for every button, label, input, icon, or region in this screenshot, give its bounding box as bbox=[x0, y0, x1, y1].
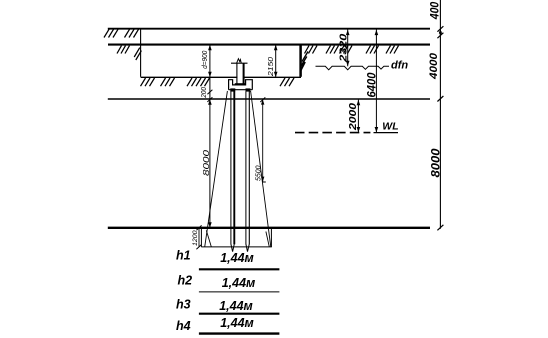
pile right outer line bbox=[245, 92, 247, 245]
svg-text:h1: h1 bbox=[176, 249, 191, 263]
svg-text:1,44м: 1,44м bbox=[219, 299, 253, 313]
dim 2000-right line bbox=[357, 100, 359, 133]
small arrow blob at right dim tick y35.5 bbox=[439, 32, 442, 36]
battered pile left tip line bbox=[206, 230, 211, 246]
soil table line under h4 (thick) bbox=[199, 332, 280, 334]
right dim tick at L4 bbox=[437, 225, 443, 231]
hatch group under pit bottom c bbox=[187, 78, 210, 86]
svg-text:h4: h4 bbox=[176, 319, 191, 333]
svg-text:4000: 4000 bbox=[428, 52, 440, 80]
dim 5500 bottom foot bbox=[263, 181, 266, 183]
hatch group under pit bottom a bbox=[141, 78, 155, 86]
hatch group under L2 right b bbox=[326, 46, 339, 54]
dim 2320 line bbox=[347, 30, 349, 67]
svg-text:1,44м: 1,44м bbox=[220, 316, 254, 330]
pile left inner line (thick) bbox=[233, 92, 235, 245]
svg-text:1200: 1200 bbox=[192, 230, 199, 246]
excavation pit right wall (thick) bbox=[299, 45, 302, 77]
hatch group under L1 left a bbox=[104, 29, 118, 37]
dim 1200 line bbox=[198, 228, 200, 247]
hatch group under L2 right e bbox=[386, 46, 399, 54]
svg-text:6400: 6400 bbox=[367, 72, 379, 98]
hatch group under L2 right c bbox=[340, 46, 353, 54]
dim 1200 tick top bbox=[196, 225, 201, 230]
svg-text:dfn: dfn bbox=[391, 60, 408, 72]
soil table line under h1 (thick) bbox=[199, 268, 280, 270]
excavation pit left wall bbox=[140, 29, 142, 77]
pile right inner line bbox=[248, 92, 250, 245]
arrow down at WL on 2000-right dim bbox=[357, 127, 361, 132]
arrow up at L3 on 2000-right dim bbox=[357, 100, 361, 105]
arrow up at L1 on 6400 dim bbox=[375, 30, 379, 35]
svg-text:WL: WL bbox=[382, 121, 398, 133]
svg-text:h3: h3 bbox=[176, 298, 191, 312]
arrow up at L3 on 5500 dim bbox=[261, 99, 264, 104]
hatch group under L2 right a bbox=[305, 46, 318, 54]
footing left edge bbox=[200, 229, 202, 247]
footing bottom line bbox=[201, 246, 271, 248]
pile right pointed tip bbox=[246, 244, 249, 252]
right dim tick at L3 bbox=[437, 96, 443, 102]
dim 1200 tick bottom bbox=[196, 245, 201, 250]
soil layer boundary L3 bbox=[108, 98, 430, 100]
arrow down at pit bottom on 2000-left dim bbox=[274, 72, 278, 77]
arrow up at L2 on 2000-left dim bbox=[274, 45, 278, 50]
svg-text:8000: 8000 bbox=[430, 148, 442, 178]
tick 200 lower on left extension line bbox=[207, 97, 212, 102]
svg-text:200: 200 bbox=[201, 87, 208, 98]
tick at L3 on 5500 dim bbox=[260, 97, 265, 102]
svg-text:d=900: d=900 bbox=[200, 50, 209, 69]
water level solid segment under WL bbox=[374, 132, 399, 134]
svg-text:h2: h2 bbox=[178, 274, 193, 288]
bearing pad right (filled) bbox=[246, 88, 251, 91]
hatch group under L2 left bbox=[117, 46, 130, 54]
arrow down at L4 on left extension line (8000) bbox=[208, 222, 212, 227]
svg-text:8000: 8000 bbox=[201, 150, 211, 176]
hatch group under pit bottom right of pier bbox=[280, 78, 294, 86]
footing right edge bbox=[270, 229, 272, 247]
svg-text:1,44м: 1,44м bbox=[220, 251, 254, 265]
arrow up at L3 on left extension line (8000) bbox=[208, 99, 212, 104]
battered pile right slant bbox=[251, 91, 271, 247]
svg-text:400: 400 bbox=[430, 1, 442, 20]
soil layer boundary L4 bbox=[108, 227, 430, 229]
arrow down at WL on 6400 dim bbox=[375, 127, 379, 132]
hatch group under pit bottom b bbox=[161, 78, 175, 86]
battered pile right tip line bbox=[266, 232, 269, 247]
ground line L2 (natural ground level) bbox=[108, 44, 430, 46]
column top bar bbox=[231, 62, 248, 64]
left dimension-extension line (d=900 / 200 / 8000) bbox=[209, 45, 211, 228]
right main dimension line bbox=[439, 0, 441, 229]
slope hatch at pit right wall bbox=[301, 52, 308, 71]
column shaft right line (thick) bbox=[243, 63, 245, 84]
slope arrow blob at pit right wall bbox=[301, 61, 306, 71]
soil table line under h2 (thin) bbox=[199, 291, 280, 293]
svg-text:2000: 2000 bbox=[347, 103, 359, 131]
arrow up at L1 on 2320 dim bbox=[346, 30, 350, 35]
svg-text:2150: 2150 bbox=[268, 57, 275, 77]
socket foundation outline bbox=[229, 80, 253, 90]
battered pile left slant bbox=[205, 91, 228, 247]
hatch group under L2 right d bbox=[366, 46, 379, 54]
slope hatch at pit left wall bbox=[134, 48, 141, 60]
dim 2000-left line bbox=[275, 45, 277, 78]
arrow down at dfn line on 2320 dim bbox=[346, 61, 350, 66]
soil table line under h3 (thick) bbox=[199, 313, 280, 315]
pile left outer line bbox=[230, 92, 232, 245]
pile left pointed tip bbox=[231, 244, 234, 252]
right dim tick at 400 below bbox=[437, 33, 443, 39]
ground line L1 (planning level) bbox=[108, 28, 430, 30]
svg-text:1,44м: 1,44м bbox=[222, 276, 256, 290]
right dim tick at L1 bbox=[437, 26, 443, 32]
dfn frost depth line with notches bbox=[316, 66, 390, 70]
excavation pit bottom bbox=[141, 76, 301, 78]
arrow up at L2 on left extension line bbox=[208, 45, 212, 50]
tick 200 upper on left extension line bbox=[207, 90, 212, 95]
svg-text:5500: 5500 bbox=[255, 165, 262, 181]
bearing pad left (filled) bbox=[230, 88, 235, 91]
column shaft left line bbox=[236, 63, 238, 84]
water level dashed line bbox=[295, 132, 370, 134]
small arrow blob at right dim tick y29 bbox=[439, 29, 442, 33]
svg-text:2320: 2320 bbox=[339, 33, 350, 63]
dim 5500 line bbox=[262, 100, 264, 182]
socket bottom edge bbox=[229, 89, 253, 91]
hatch group under L1 left b bbox=[125, 29, 139, 37]
arrow down at pit bottom on left extension line bbox=[208, 72, 212, 77]
dim 6400 line bbox=[375, 30, 377, 133]
column break symbol bbox=[237, 59, 242, 64]
column bottom bar (thick) bbox=[235, 83, 246, 85]
arrow down at slant on 5500 dim bbox=[261, 177, 264, 182]
